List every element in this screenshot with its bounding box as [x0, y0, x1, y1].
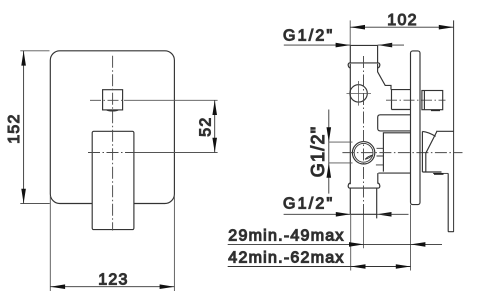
G1/2 bottom left arrow — [336, 212, 351, 217]
horizontal centerline through valve axis — [88, 152, 135, 154]
arc under diverter button — [106, 110, 118, 111]
dimension 123 arrows — [50, 284, 174, 289]
svg-text:102: 102 — [387, 12, 417, 29]
diverter axis centerline — [386, 99, 446, 101]
lever handle (front) — [92, 131, 134, 229]
dimension 102 line — [350, 26, 453, 28]
top flange — [348, 63, 380, 68]
top pipe stub — [350, 45, 377, 62]
wall plate (rounded square escutcheon) — [50, 51, 174, 204]
svg-text:29min.-49max: 29min.-49max — [228, 227, 344, 244]
wall plate (side view) — [411, 51, 421, 205]
row1 arrows (outside) — [349, 242, 425, 247]
svg-text:G1/2": G1/2" — [283, 28, 334, 45]
horizontal centerline through diverter button — [90, 99, 124, 101]
dimension 52 arrows — [212, 100, 217, 152]
extension line from valve axis to 52-dim — [135, 152, 218, 154]
valve axis horizontal centerline (side view) — [342, 152, 462, 154]
G1/2 bottom leader line — [284, 213, 351, 215]
dimension 102 left extension — [349, 20, 351, 45]
dimension 123 extension lines — [50, 196, 174, 291]
svg-text:G1/2": G1/2" — [308, 126, 328, 178]
centerline extension below bottom pipe — [363, 214, 365, 248]
bottom flange — [348, 183, 380, 188]
handle collar top curve — [422, 131, 435, 136]
diverter knob (side) — [422, 91, 443, 110]
dimension 102 arrows — [350, 25, 453, 30]
G1/2 middle arrows (outside) — [327, 127, 332, 177]
extension line pipe left edge (below) — [350, 214, 352, 270]
dimension 152 line — [23, 51, 25, 204]
middle port outer circle — [352, 142, 374, 164]
valve body vertical centerline — [363, 56, 365, 214]
cartridge lower step — [378, 173, 411, 184]
lever right edge / 102 right extension line — [453, 20, 455, 231]
middle port inner circle — [354, 143, 373, 162]
set screw dark line — [434, 173, 444, 175]
dimension 152 extension lines — [20, 51, 50, 204]
svg-text:152: 152 — [6, 113, 23, 143]
svg-text:G1/2": G1/2" — [283, 195, 334, 212]
valve body left edge — [349, 64, 351, 184]
mid block below diverter stub — [378, 115, 411, 131]
top port cross centerlines — [347, 81, 372, 106]
cartridge housing block — [383, 133, 410, 172]
vertical centerline of front view — [112, 56, 114, 231]
dimension 52 line — [214, 100, 216, 152]
G1/2 middle dimension line vertical — [328, 110, 330, 194]
svg-text:123: 123 — [98, 271, 128, 288]
G1/2 top leader line — [284, 44, 350, 46]
diverter button (small square) — [103, 90, 123, 110]
diverter knob bottom shadow — [431, 109, 440, 111]
extension line wall face (below plate) — [410, 205, 412, 271]
lever top edge — [436, 130, 453, 132]
extension line from button centre to 52-dim — [124, 99, 218, 101]
handle collar back edge — [421, 132, 423, 173]
G1/2 bottom right arrow with tail — [377, 212, 392, 217]
valve body right edge upper + chamfer to diverter housing — [378, 64, 391, 90]
diverter shaft stub (behind wall plate) — [391, 90, 410, 110]
row2 arrows (inside) — [351, 264, 411, 269]
small lens detail in middle port — [365, 155, 372, 159]
lever front diagonal — [426, 132, 437, 172]
ports between body and cartridge — [376, 148, 384, 165]
G1/2 middle extension lines — [329, 142, 353, 163]
G1/2 top left arrow (outside) — [336, 43, 351, 48]
dimension row 29min-49max line — [228, 243, 442, 245]
svg-text:52: 52 — [197, 117, 214, 137]
top port circle — [350, 85, 367, 102]
dimension 123 line — [50, 286, 174, 288]
handle base bottom — [422, 171, 441, 173]
dimension row 42min-62max line — [228, 266, 411, 268]
bottom pipe end line — [350, 213, 377, 215]
dimension 152 arrows — [21, 51, 26, 204]
lever grip left edge — [448, 173, 453, 231]
bottom pipe stub — [350, 188, 376, 218]
handle base second bottom line — [433, 172, 448, 174]
diverter knob collar line — [423, 91, 425, 110]
G1/2 top right arrow (outside) with tail — [378, 43, 393, 48]
svg-text:42min.-62max: 42min.-62max — [228, 249, 344, 266]
